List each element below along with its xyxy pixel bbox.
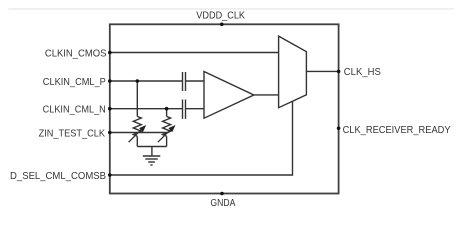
wire amp output to mux — [254, 94, 279, 96]
wire resistor R2 bottom — [166, 136, 168, 146]
svg-text:CLK_RECEIVER_READY: CLK_RECEIVER_READY — [343, 124, 451, 136]
pin dot GNDA — [220, 192, 224, 196]
pin dot ZIN_TEST_CLK — [108, 131, 112, 135]
pin dot CLKIN_CML_N — [108, 107, 112, 111]
mux U2 — [279, 36, 307, 108]
svg-text:CLKIN_CML_N: CLKIN_CML_N — [43, 104, 106, 116]
pin dot CLKIN_CMOS — [108, 51, 112, 55]
wire bottom bus joining R1 and R2 — [137, 146, 166, 148]
svg-text:CLK_HS: CLK_HS — [344, 66, 381, 78]
wire stub to ground — [151, 147, 153, 157]
pin dot CLK_RECEIVER_READY — [337, 127, 341, 131]
ground — [143, 156, 161, 165]
pin dot CLK_HS — [337, 70, 341, 74]
junction node on CML_P — [136, 79, 140, 83]
wire CML_N tap down to resistor R2 — [166, 109, 168, 117]
resistor R2 arrow — [158, 125, 176, 142]
svg-text:CLKIN_CML_P: CLKIN_CML_P — [43, 76, 106, 88]
wire CML_P tap down to resistor R1 — [136, 81, 138, 116]
wire capacitor C2 to amp input — [186, 108, 205, 110]
capacitor C2 — [183, 100, 186, 119]
svg-text:CLKIN_CMOS: CLKIN_CMOS — [45, 47, 107, 59]
pin dot CLKIN_CML_P — [108, 79, 112, 83]
resistor R1 arrow — [129, 125, 147, 142]
svg-text:D_SEL_CML_COMSB: D_SEL_CML_COMSB — [10, 170, 106, 182]
svg-text:VDDD_CLK: VDDD_CLK — [196, 9, 245, 21]
wire CLKIN_CMOS to mux — [110, 52, 279, 54]
IC block outline — [110, 24, 339, 193]
wire ZIN_TEST_CLK — [110, 132, 169, 134]
svg-text:ZIN_TEST_CLK: ZIN_TEST_CLK — [39, 127, 105, 139]
top divider line — [8, 8, 454, 10]
wire CLKIN_CML_P to capacitor C1 — [110, 80, 183, 82]
capacitor C1 — [183, 72, 186, 91]
resistor R1 (variable) — [133, 116, 141, 136]
wire capacitor C1 to amp input — [186, 80, 205, 82]
wire D_SEL_CML_COMSB to mux select — [110, 101, 293, 175]
wire resistor R1 bottom — [136, 136, 138, 146]
resistor R2 (variable) — [163, 116, 171, 136]
junction node on CML_N — [165, 107, 169, 111]
wire CLKIN_CML_N to capacitor C2 — [110, 108, 183, 110]
svg-text:GNDA: GNDA — [210, 197, 235, 209]
pin dot VDDD_CLK — [220, 23, 224, 27]
wire mux output to CLK_HS pin — [306, 70, 338, 72]
pin dot D_SEL_CML_COMSB — [108, 173, 112, 177]
op-amp buffer U1 — [204, 72, 254, 119]
